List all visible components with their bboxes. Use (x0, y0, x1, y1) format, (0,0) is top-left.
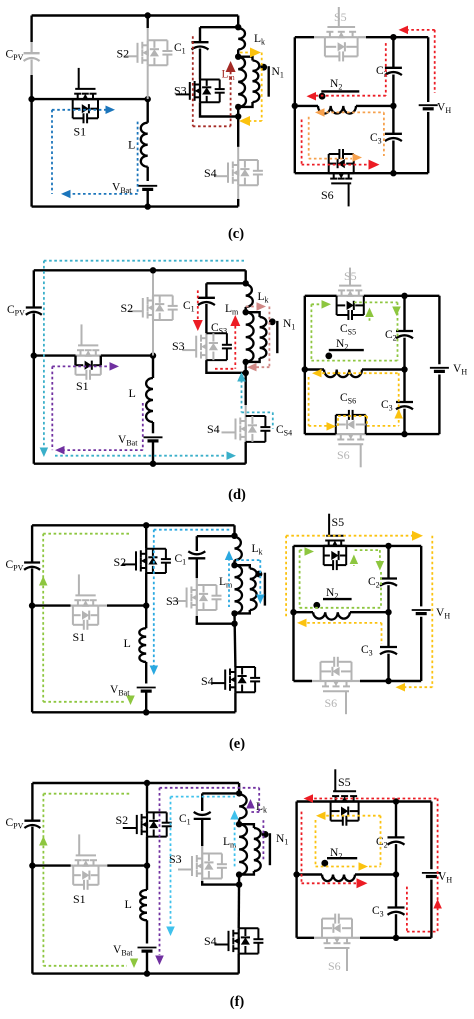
polarity dot N2 (f) (321, 860, 328, 867)
current path cyan (d) (44, 260, 244, 262)
svg-text:S2: S2 (117, 47, 130, 61)
node (c) bottom VBat (145, 203, 151, 209)
svg-text:S1: S1 (76, 379, 89, 393)
core bar N1 (e) (264, 573, 266, 606)
wire (f) C1 to S3 (201, 819, 203, 846)
capacitor C2 (c) (392, 37, 394, 68)
wire (c) clamp top (200, 26, 238, 28)
svg-text:S4: S4 (207, 422, 220, 436)
svg-text:(d): (d) (228, 487, 246, 503)
battery VH (c) (419, 104, 438, 106)
node (f) left mid (29, 862, 35, 868)
node (f) bottom VBat (144, 970, 150, 976)
node (f) transformer top (236, 790, 242, 796)
wire (f) S2 branch (146, 783, 148, 812)
transistor S5 (d) (339, 285, 361, 287)
wire (c) VH branch (427, 37, 429, 102)
transistor S1 (e) (75, 594, 95, 596)
wire (e) middle S1 rail (32, 604, 70, 606)
node (e) top S2 (143, 522, 149, 528)
transistor S3 (f) (191, 856, 193, 876)
wire (c) S2 branch (146, 16, 148, 29)
transistor S4 (c) (227, 163, 229, 183)
inductor Lk (d) (246, 284, 253, 307)
svg-text:S2: S2 (114, 555, 127, 569)
core bar N1 (c) (268, 66, 270, 97)
node (c) top S2 (145, 12, 151, 18)
wire (f) clamp top (202, 792, 239, 794)
node (c) Lm bottom (235, 104, 241, 110)
wire (e) C1 to S3 (196, 558, 198, 578)
node (c) S1-S2-L junction (145, 96, 151, 102)
node (c) left mid (28, 96, 34, 102)
svg-text:L: L (125, 897, 132, 911)
svg-text:S3: S3 (166, 594, 179, 608)
wire (e) transformer to S4 (233, 613, 236, 667)
wire (d) transformer to S4 (244, 362, 246, 405)
current path yellow (c) N1 loop (240, 52, 252, 54)
polarity dot N1 (e) (256, 571, 263, 578)
node (f) C2 top (393, 798, 399, 804)
node (f) S3 return (236, 881, 242, 887)
current path maroon (c) clamp loop (192, 36, 194, 126)
transistor S6 (e) (323, 690, 349, 692)
transistor S5 (e) (326, 535, 344, 537)
battery VBat (c) (138, 185, 157, 187)
current path green (e) S5 loop (299, 550, 301, 608)
inductor Lm (f) (239, 824, 247, 874)
wire (f) S4 to bottom (237, 954, 239, 974)
svg-text:S6: S6 (337, 448, 350, 462)
node (e) Lm bottom (231, 610, 237, 616)
wire (e) clamp top (197, 535, 235, 537)
transistor S1 (d) (78, 344, 98, 346)
current path green (d) (310, 304, 312, 360)
capacitor C2 (d) (403, 296, 405, 331)
node (e) C2 top (385, 543, 391, 549)
node (f) N2 right (393, 871, 399, 877)
wire (c) bottom (32, 205, 239, 207)
svg-text:S1: S1 (73, 892, 86, 906)
winding N2 (f) (297, 873, 322, 875)
wire (d) bottom (34, 463, 246, 465)
wire (e) S4 to bottom (234, 692, 236, 712)
polarity dot N1 (c) (260, 64, 267, 71)
svg-text:S6: S6 (321, 188, 334, 202)
capacitor C1 (c) (192, 41, 209, 43)
wire (c) right left side (294, 37, 296, 173)
svg-text:S4: S4 (204, 166, 217, 180)
current path red (f) (309, 798, 438, 800)
capacitor CPV (e) (24, 561, 40, 563)
svg-text:S2: S2 (121, 301, 134, 315)
transistor S2 (d) (142, 298, 144, 318)
inductor Lm (c) (238, 57, 246, 107)
polarity dot N2 (d) (325, 353, 332, 360)
battery VH (e) (412, 609, 431, 611)
node (c) N2 right (390, 103, 396, 109)
wire (f) right bottom (297, 937, 314, 939)
core bar N2 (d) (329, 349, 364, 351)
wire (d) middle S1 rail (34, 354, 76, 356)
current path salmon (d) N1 loop (246, 306, 258, 308)
node (d) Lk-Lm (243, 309, 249, 315)
inductor L (f) (140, 890, 147, 920)
wire (c) right bottom (295, 172, 428, 174)
node (c) S3 return (235, 113, 241, 119)
node (d) N2 right (401, 366, 407, 372)
capacitor C1 (f) (194, 818, 211, 820)
wire (d) C1 to S3 (205, 304, 207, 333)
wire (f) S3 source loop (201, 879, 203, 882)
wire (c) middle S1 rail (32, 98, 148, 100)
node (f) Lm bottom (236, 871, 242, 877)
wire (d) clamp top (206, 282, 245, 284)
wire (f) VH branch (430, 802, 432, 870)
current path green (e) left (43, 533, 131, 535)
current path orange (c) C3 loop (321, 111, 384, 113)
wire (f) left top (32, 782, 239, 784)
node (e) C3 bottom (385, 678, 391, 684)
wire (c) C1 to S3 (199, 49, 201, 80)
battery VBat (f) (138, 947, 157, 949)
transistor S3 (d) (195, 336, 197, 358)
transistor S6 (d) (338, 443, 363, 445)
svg-text:S6: S6 (328, 959, 341, 973)
node (f) Lk-Lm (236, 821, 242, 827)
wire (c) transformer to S4 (237, 107, 239, 147)
wire (d) S2 branch (152, 270, 154, 295)
capacitor C1 (d) (198, 297, 215, 299)
wire (c) left side (30, 16, 32, 43)
svg-text:S5: S5 (332, 515, 345, 529)
capacitor C2 (e) (387, 546, 389, 579)
current path yellow (f) (321, 815, 381, 817)
core bar N2 (f) (327, 857, 357, 859)
current path yellow (e) (286, 535, 412, 537)
wire (d) left side (33, 270, 35, 307)
svg-text:S1: S1 (73, 630, 86, 644)
wire (c) S3 source loop (200, 102, 238, 116)
current path blue (e) (154, 529, 230, 531)
wire (d) S4 to bottom (244, 442, 246, 464)
node (e) transformer top (231, 533, 237, 539)
capacitor CPV (f) (24, 820, 40, 822)
polarity dot N1 (d) (269, 318, 276, 325)
wire (f) right top (297, 800, 432, 802)
node (c) C3 bottom (390, 170, 396, 176)
current path blue (c) S1 loop (52, 109, 107, 111)
wire (f) middle S1 rail (32, 864, 70, 866)
transistor S2 (c) (137, 43, 139, 63)
transistor S5 (c) (327, 26, 355, 28)
capacitor C1 (e) (188, 557, 205, 559)
svg-text:S4: S4 (204, 934, 217, 948)
transistor S3 (e) (186, 588, 188, 608)
node (d) junction mid (150, 352, 156, 358)
node (f) C3 bottom (393, 935, 399, 941)
transistor S2 (e) (135, 551, 137, 570)
core bar N2 (e) (323, 598, 352, 600)
wire (d) S3 source loop (206, 360, 245, 373)
battery VH (d) (430, 367, 449, 369)
current path yellow (d) (317, 372, 399, 374)
current path purple (f) (160, 787, 260, 789)
winding N1 (e) (235, 565, 250, 568)
svg-text:L: L (124, 636, 131, 650)
node (c) C2 top (390, 34, 396, 40)
svg-text:S3: S3 (174, 84, 187, 98)
battery VH (f) (422, 872, 441, 874)
transistor S4 (f) (228, 931, 230, 951)
svg-text:S1: S1 (74, 125, 87, 139)
transistor S3 (c) (189, 82, 191, 100)
wire (f) bottom (32, 972, 238, 974)
battery VBat (e) (137, 687, 156, 689)
wire (e) top to transformer (233, 525, 235, 537)
svg-text:(f): (f) (230, 994, 245, 1010)
wire (d) top to transformer (244, 270, 246, 284)
svg-text:(c): (c) (228, 226, 244, 242)
battery VBat (d) (144, 436, 163, 438)
node (e) Lk-Lm (231, 562, 237, 568)
wire (e) bottom (32, 711, 235, 713)
wire (e) right top (294, 545, 422, 547)
transistor S2 (f) (136, 815, 138, 834)
wire (c) S4 to bottom (237, 185, 239, 200)
transistor S6 (f) (325, 947, 350, 949)
svg-text:L: L (128, 138, 135, 152)
inductor L (d) (146, 378, 153, 422)
polarity dot N2 (c) (319, 93, 326, 100)
svg-text:S4: S4 (201, 674, 214, 688)
node (f) junction mid (144, 862, 150, 868)
wire (f) top to transformer (238, 783, 240, 794)
wire (f) right left side (295, 802, 297, 938)
capacitor CPV (c) (24, 52, 40, 54)
capacitor C3 (d) (403, 370, 405, 403)
current path red (c) VH (434, 30, 436, 93)
inductor Lk (e) (235, 537, 242, 561)
capacitor C3 (c) (392, 106, 394, 134)
wire (e) left side (31, 525, 33, 562)
node (d) C3 bottom (401, 431, 407, 437)
svg-text:L: L (129, 386, 136, 400)
transistor S6 (c) (331, 182, 351, 184)
current path green (f) left (43, 793, 131, 795)
wire (c) right top (295, 36, 314, 38)
transistor S4 (d) (235, 419, 237, 440)
winding N2 (c) (295, 105, 318, 107)
inductor L (e) (139, 628, 146, 662)
capacitor C2 (f) (395, 802, 397, 838)
wire (d) left top (34, 269, 246, 271)
wire (d) S1 diode detour (74, 356, 76, 366)
node (e) junction mid (143, 602, 149, 608)
node (c) Lk-Lm (235, 54, 241, 60)
wire (d) right top (305, 295, 337, 297)
capacitor CPV (d) (26, 306, 42, 308)
wire (e) S2 branch (145, 525, 147, 549)
wire (f) left side (31, 783, 33, 821)
wire (c) left top (32, 14, 239, 16)
node (d) left mid (31, 352, 37, 358)
node (c) N2 left (292, 103, 298, 109)
node (e) N2 left (290, 609, 296, 615)
node (f) N2 left (293, 871, 299, 877)
wire (e) right bottom (294, 680, 313, 682)
core bar N2 (c) (321, 90, 359, 92)
node (d) S3 return (243, 370, 249, 376)
transistor S5 (f) (333, 790, 356, 792)
winding N2 (d) (305, 368, 324, 370)
winding N1 (c) (238, 57, 252, 61)
node (e) N2 right (385, 609, 391, 615)
wire (e) VH branch (420, 546, 422, 607)
svg-text:S2: S2 (116, 813, 129, 827)
capacitor C3 (f) (395, 875, 397, 908)
wire (e) S3 source loop (196, 610, 198, 616)
polarity dot N2 (e) (313, 602, 320, 609)
node (f) top S2 (144, 780, 150, 786)
wire (f) transformer to S4 (237, 875, 240, 929)
node (d) transformer top (243, 280, 249, 286)
current path cyan (f) (171, 796, 236, 798)
inductor Lk (f) (239, 794, 247, 818)
node (c) transformer top (235, 24, 241, 30)
node (e) S3 return (231, 621, 237, 627)
node (e) bottom VBat (143, 709, 149, 715)
svg-text:S3: S3 (172, 339, 185, 353)
winding N1 (f) (239, 824, 254, 828)
transistor S1 (c) (75, 88, 95, 90)
wire (e) right left side (292, 546, 294, 681)
wire (e) left top (32, 524, 234, 526)
wire (d) right left side (304, 296, 306, 434)
core bar N1 (d) (276, 321, 278, 353)
winding N2 (e) (294, 611, 314, 613)
transistor S4 (e) (224, 670, 226, 690)
inductor Lk (c) (238, 28, 245, 49)
winding N1 (d) (246, 312, 260, 317)
core bar N1 (f) (269, 833, 271, 865)
svg-text:S5: S5 (338, 775, 351, 789)
node (d) bottom VBat (150, 461, 156, 467)
svg-text:S5: S5 (334, 10, 347, 24)
inductor Lm (e) (235, 565, 243, 613)
current path purple (d) (52, 365, 110, 367)
node (d) Lm bottom (243, 359, 249, 365)
transistor S1 (f) (76, 854, 96, 856)
polarity dot N1 (f) (262, 831, 269, 838)
wire (d) right bottom (305, 433, 336, 435)
wire (c) top to transformer (237, 16, 239, 29)
wire (d) VH branch (438, 296, 440, 364)
svg-text:S5: S5 (344, 269, 357, 283)
svg-text:S6: S6 (325, 696, 338, 710)
node (d) C2 top (401, 293, 407, 299)
inductor L (c) (141, 123, 148, 167)
node (e) left mid (29, 602, 35, 608)
capacitor C3 (e) (387, 612, 389, 647)
current path red (d) clamp (197, 290, 199, 322)
node (d) N2 left (302, 366, 308, 372)
inductor Lm (d) (246, 312, 254, 362)
svg-text:(e): (e) (229, 736, 245, 752)
node (d) top S2 (150, 267, 156, 273)
